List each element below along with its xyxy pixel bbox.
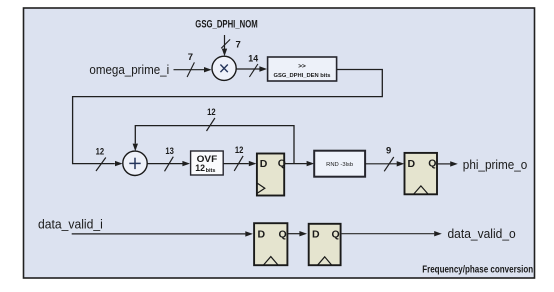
svg-text:>>: >> — [298, 63, 306, 70]
wire GSG_DPHI_NOM into multiplier — [222, 35, 227, 56]
wire FF2 to phi_prime_o — [437, 161, 458, 166]
wire shift box feedback to adder (right, down, left, down) — [73, 70, 383, 167]
svg-text:D: D — [312, 229, 320, 241]
flip-flop FF4 — [309, 224, 341, 265]
svg-text:12: 12 — [96, 147, 105, 158]
svg-text:12: 12 — [235, 145, 244, 156]
svg-text:D: D — [258, 229, 266, 241]
multiplier X — [212, 56, 236, 80]
adder — [123, 151, 147, 175]
wire FF1 to RND (with feedback junction) — [284, 161, 314, 166]
svg-text:Frequency/phase conversion: Frequency/phase conversion — [422, 264, 533, 276]
svg-text:GSG_DPHI_DEN bits: GSG_DPHI_DEN bits — [274, 73, 332, 79]
shift block >> GSG_DPHI_DEN bits — [268, 57, 337, 81]
flip-flop FF1 — [257, 154, 286, 196]
svg-text:D: D — [260, 158, 268, 170]
svg-text:bits: bits — [206, 168, 216, 174]
svg-text:7: 7 — [188, 52, 193, 63]
slash bit-width 12 (OVF to FF1) — [234, 156, 243, 171]
slash bit-width 12 (adder left input) — [96, 158, 106, 172]
wire inner feedback from FF1 output up into adder — [133, 126, 294, 164]
svg-text:Q: Q — [332, 228, 340, 240]
OVF 12bits block — [191, 151, 224, 175]
wire OVF to FF1 — [223, 161, 256, 166]
svg-text:12: 12 — [207, 107, 216, 118]
wire omega_prime_i into multiplier — [174, 67, 212, 72]
svg-text:7: 7 — [236, 39, 241, 50]
svg-text:9: 9 — [386, 146, 391, 157]
slash bit-width 7 (top) — [221, 39, 230, 48]
svg-text:Q: Q — [428, 158, 436, 170]
wire multiplier to shift box — [236, 66, 267, 71]
svg-text:13: 13 — [165, 146, 174, 157]
svg-text:phi_prime_o: phi_prime_o — [463, 157, 528, 172]
wire FF4 to data_valid_o — [341, 231, 442, 236]
svg-text:Q: Q — [279, 228, 287, 240]
svg-text:data_valid_i: data_valid_i — [38, 217, 103, 232]
slash bit-width 9 — [384, 157, 394, 171]
wire adder to OVF — [147, 161, 190, 166]
svg-text:12: 12 — [195, 163, 205, 174]
slash bit-width 12 (inner feedback) — [207, 118, 215, 131]
wire FF3 to FF4 — [287, 231, 307, 236]
svg-text:GSG_DPHI_NOM: GSG_DPHI_NOM — [195, 19, 257, 31]
wire data_valid_i to FF3 — [72, 231, 253, 236]
RND -3lsb block — [314, 151, 365, 177]
svg-text:RND -3lsb: RND -3lsb — [326, 162, 353, 168]
flip-flop FF3 — [254, 223, 287, 265]
svg-text:omega_prime_i: omega_prime_i — [89, 62, 169, 77]
slash bit-width 14 — [249, 64, 258, 77]
svg-text:D: D — [408, 158, 416, 170]
svg-text:data_valid_o: data_valid_o — [448, 226, 516, 241]
flip-flop FF2 — [405, 153, 438, 194]
svg-text:14: 14 — [248, 54, 258, 65]
slash bit-width 13 — [165, 157, 174, 172]
wire RND to FF2 — [365, 161, 404, 166]
slash bit-width 7 (left) — [187, 62, 194, 77]
